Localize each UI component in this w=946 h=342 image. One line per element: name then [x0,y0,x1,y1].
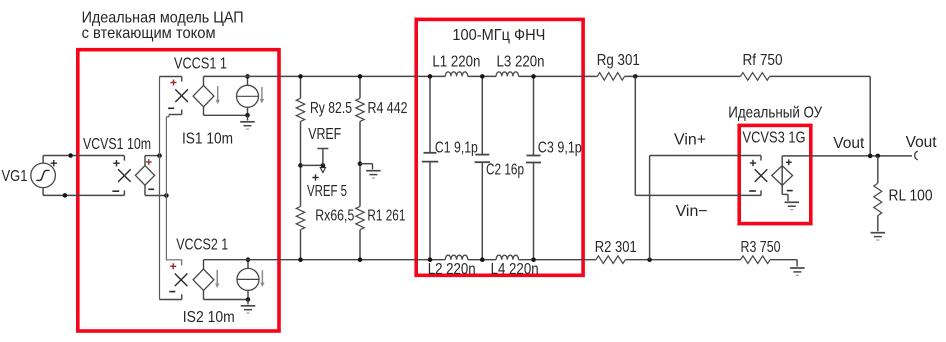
svg-text:Rf 750: Rf 750 [743,52,783,69]
svg-text:Vin−: Vin− [676,203,708,220]
svg-text:VCVS3 1G: VCVS3 1G [743,130,806,147]
svg-text:VCCS2 1: VCCS2 1 [176,237,228,254]
svg-text:IS2 10m: IS2 10m [183,309,235,326]
svg-text:Vout: Vout [833,135,865,152]
svg-text:с втекающим током: с втекающим током [82,25,216,42]
svg-text:Rx66,5: Rx66,5 [315,208,354,225]
svg-text:C1 9,1p: C1 9,1p [435,139,478,156]
svg-text:VG1: VG1 [2,168,28,185]
svg-text:R2 301: R2 301 [595,239,637,256]
svg-text:R3 750: R3 750 [741,239,781,256]
svg-text:VCVS1 10m: VCVS1 10m [83,136,151,153]
svg-text:VREF 5: VREF 5 [307,183,347,200]
svg-text:C3 9,1p: C3 9,1p [538,139,582,156]
svg-text:VREF: VREF [308,126,341,143]
svg-text:Rg 301: Rg 301 [597,52,640,69]
svg-text:L2 220n: L2 220n [428,261,476,278]
svg-text:R1 261: R1 261 [367,208,405,225]
svg-text:Vout: Vout [906,134,938,151]
svg-text:Идеальный ОУ: Идеальный ОУ [728,104,823,121]
svg-text:IS1 10m: IS1 10m [182,131,233,148]
svg-text:VCCS1 1: VCCS1 1 [174,56,227,73]
svg-text:100-МГц ФНЧ: 100-МГц ФНЧ [452,27,545,44]
svg-text:C2 16p: C2 16p [486,162,524,179]
svg-text:RL 100: RL 100 [889,187,933,204]
svg-text:L4 220n: L4 220n [491,261,539,278]
svg-text:Ry 82.5: Ry 82.5 [310,100,352,117]
svg-text:Vin+: Vin+ [674,132,706,149]
svg-text:R4 442: R4 442 [368,100,408,117]
svg-text:L1 220n: L1 220n [432,54,480,71]
svg-text:L3 220n: L3 220n [497,54,545,71]
